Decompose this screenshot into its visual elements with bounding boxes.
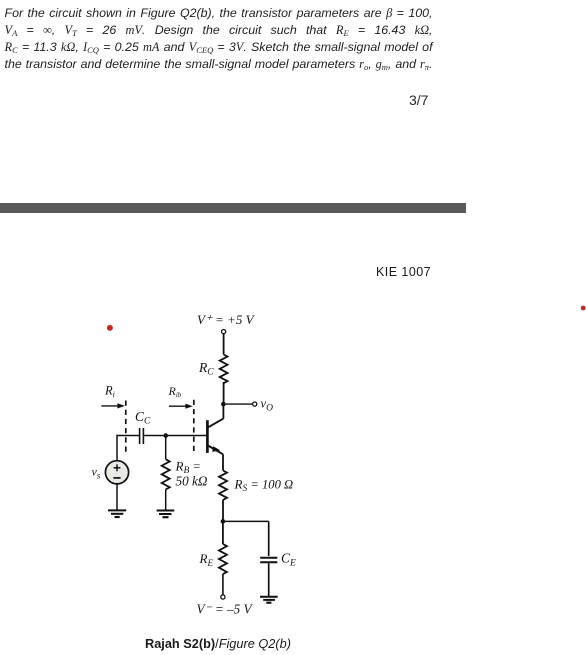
gray divider bar: [0, 203, 466, 213]
svg-text:CC: CC: [135, 409, 151, 427]
capacitor CC: [139, 428, 141, 444]
base bar: [206, 420, 209, 453]
dashed marker Ri: [125, 401, 127, 456]
emitter: [208, 446, 223, 455]
wire RS to emitter node: [222, 500, 224, 522]
page number 3/7: [409, 92, 469, 108]
transistor Q1: [207, 404, 223, 454]
node collector junction: [221, 402, 226, 407]
resistor RS: [219, 471, 227, 500]
capacitor CE: [260, 557, 277, 559]
resistor RB: [165, 436, 167, 460]
arrow Rib: [169, 405, 188, 407]
junction dot base node: [164, 433, 169, 438]
svg-text:CE: CE: [281, 551, 296, 569]
caption: [145, 636, 291, 651]
svg-text:vO: vO: [261, 397, 274, 414]
base wire from CC junction to base: [144, 435, 206, 437]
arrow Ri: [101, 405, 119, 407]
svg-text:Ri: Ri: [104, 384, 115, 399]
svg-text:50 kΩ: 50 kΩ: [176, 474, 208, 489]
terminal V+: [222, 330, 226, 334]
ground (RB): [157, 511, 175, 518]
collector wire: [222, 404, 224, 419]
paragraph of question text: [5, 5, 433, 73]
wire to CE branch: [223, 520, 269, 522]
svg-text:RE: RE: [199, 551, 214, 568]
ground (CE): [260, 597, 278, 603]
wire RC to collector node: [223, 382, 225, 404]
wire to output: [223, 403, 252, 405]
node emitter junction: [221, 519, 226, 524]
svg-text:Rib: Rib: [168, 384, 182, 399]
source vs: [105, 461, 128, 484]
svg-text:V⁻ = –5 V: V⁻ = –5 V: [197, 601, 254, 616]
course code: [376, 265, 431, 279]
terminal V-: [221, 595, 225, 599]
emitter wire to RS: [222, 454, 224, 470]
ground (vs): [108, 510, 126, 517]
resistor RC: [220, 355, 228, 384]
svg-text:RC: RC: [198, 360, 214, 378]
resistor RE: [222, 521, 224, 544]
wire vs to CC: [117, 435, 139, 437]
wire vs to ground: [116, 484, 118, 510]
red dot left: [107, 325, 113, 331]
red dot right edge: [581, 306, 586, 311]
wire V+ to RC: [223, 334, 225, 355]
terminal vO: [253, 402, 257, 406]
svg-text:vs: vs: [92, 465, 101, 481]
svg-text:RS = 100 Ω: RS = 100 Ω: [234, 477, 294, 495]
svg-text:V⁺ = +5 V: V⁺ = +5 V: [197, 312, 256, 327]
dashed marker Rib: [193, 400, 195, 454]
